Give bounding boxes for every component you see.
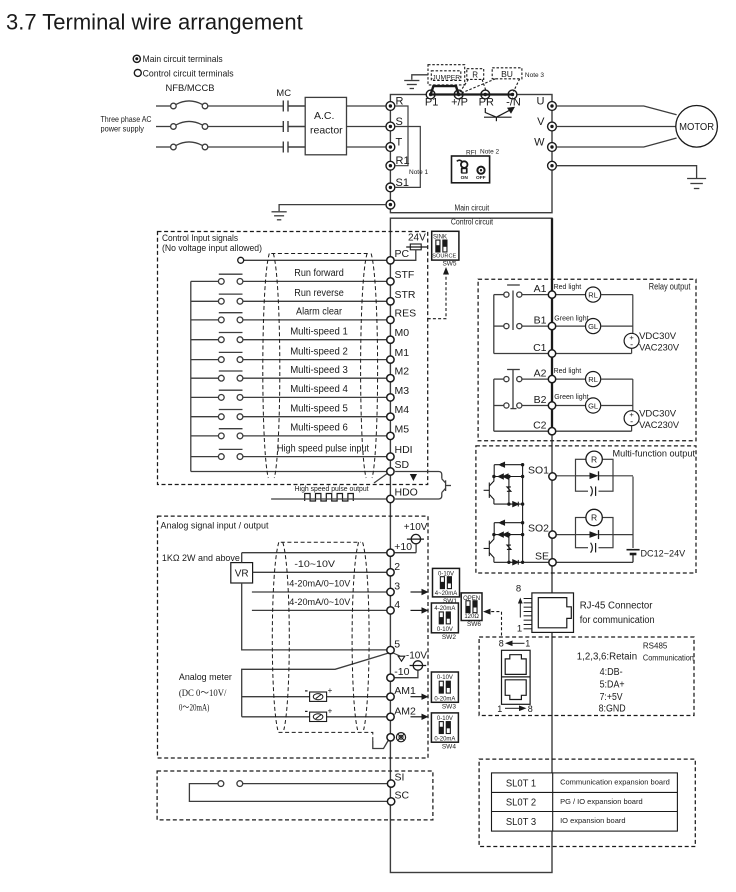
svg-text:0-10V: 0-10V [437,675,453,681]
label RES [395,307,417,319]
svg-text:Multi-speed 2: Multi-speed 2 [290,346,348,357]
terminal STR [387,298,394,305]
RFI switch box [452,148,500,182]
opto emitter bus [522,465,524,563]
potentiometer VR [231,553,253,583]
label green light 2 [554,394,588,401]
terminal AM2 [387,713,394,720]
NFB switch phase 3 [156,142,283,150]
svg-text:Multi-speed 5: Multi-speed 5 [290,404,348,415]
svg-text:M1: M1 [395,347,410,359]
svg-text:SO2: SO2 [528,523,549,535]
relay 2 lamps and supply [556,372,639,432]
terminal +10 [387,549,394,556]
input switch Multi-speed 3 [191,371,387,381]
wire motor ground [556,166,696,178]
svg-text:Note 3: Note 3 [525,72,545,79]
label S [396,116,403,128]
svg-text:Main circuit: Main circuit [455,203,490,212]
RJ-45 pin numbers [516,584,523,635]
shield bottom dashed line (analog) [279,732,373,741]
terminal SO2 [549,531,556,538]
label Run reverse [294,288,344,299]
svg-text:RFI: RFI [466,150,477,157]
svg-text:-: - [630,339,633,349]
svg-text:SL0T 2: SL0T 2 [506,798,537,809]
svg-text:SW3: SW3 [442,704,456,711]
svg-text:-: - [305,706,308,717]
svg-text:DC12~24V: DC12~24V [641,549,686,560]
jumper dashed box [428,65,465,85]
svg-text:8: 8 [499,638,504,648]
label VDC30V VAC230V 2 [639,409,680,432]
terminal HDO [387,495,394,502]
svg-text:JUMPER: JUMPER [432,74,460,81]
svg-text:Analog signal input / output: Analog signal input / output [161,521,269,532]
arrow row4 to SW2 [411,607,429,613]
svg-text:W: W [534,137,545,149]
terminal PR [481,90,490,99]
terminal -10 [387,674,394,681]
svg-text:120Ω: 120Ω [464,614,479,620]
switch SW1 [433,568,460,605]
RJ-45 pins [524,599,532,629]
HDO output transistor [395,472,451,500]
analog meter AM2 [305,706,333,722]
wire reactor to inverter phase 1 [347,105,387,107]
analog meter AM1 [305,686,333,702]
MC contact phase 1 [283,101,305,112]
svg-text:24V: 24V [408,233,426,244]
svg-text:SL0T 1: SL0T 1 [506,778,537,789]
internal wire S to S1 [395,127,421,188]
svg-text:M4: M4 [395,404,410,416]
internal wire R to R1 [395,106,408,166]
opto transistor group 2 [484,520,525,564]
label BU [501,69,513,79]
label Multi-speed 6 [290,423,348,434]
svg-text:Relay output: Relay output [649,282,691,292]
safety switch SI SC [189,781,387,802]
svg-text:RL: RL [588,290,598,299]
svg-text:+: + [328,686,333,695]
svg-text:-: - [630,417,633,427]
wire U to motor [556,106,676,115]
terminal 2 [387,569,394,576]
label 5 [394,639,400,651]
legend main circuit text [143,54,223,65]
label Alarm clear [296,307,343,318]
RS485 pin description [577,652,637,715]
svg-text:Multi-speed 3: Multi-speed 3 [290,365,348,376]
label Note 1 [409,169,429,176]
svg-text:SOURCE: SOURCE [432,254,456,260]
input switch Alarm clear [191,313,387,323]
label STF [395,269,415,281]
svg-text:Red light: Red light [554,368,582,375]
switch SW3 [431,672,458,711]
svg-text:C2: C2 [533,420,547,432]
NFB switch phase 1 [156,101,283,109]
terminal STF [387,278,394,285]
terminal SO1 [549,473,556,480]
label green light 1 [554,316,588,323]
terminal SD [387,468,394,475]
svg-text:VAC230V: VAC230V [639,420,680,431]
svg-text:ON: ON [461,175,469,181]
svg-text:RES: RES [395,307,417,319]
svg-text:3.7 Terminal wire arrangement: 3.7 Terminal wire arrangement [6,10,303,35]
label Multi-function output [613,448,696,459]
label SI [395,772,405,784]
ground screw symbol [396,733,405,742]
label HDI [395,444,413,456]
input switch Multi-speed 1 [191,333,387,343]
MC contact phase 3 [283,142,305,153]
svg-text:for communication: for communication [580,615,655,626]
svg-text:R: R [591,513,597,523]
control circuit box [390,218,552,872]
svg-text:5: 5 [394,639,400,651]
label R option [472,70,478,79]
label C1 [533,342,547,354]
label Multi-speed 2 [290,346,348,357]
RS485 pin order bottom [497,704,533,714]
label A1 [534,283,547,295]
label SD [395,459,410,471]
wire reactor to inverter phase 2 [347,126,387,128]
RS485 dual jacks [502,650,531,704]
relay 2 contacts [494,370,632,432]
terminal RES [387,316,394,323]
svg-text:Control circuit terminals: Control circuit terminals [143,68,234,79]
svg-text:Analog meter: Analog meter [179,672,232,683]
terminal R [386,102,395,111]
terminal AM1 [387,693,394,700]
wire row 4 [252,609,387,611]
label 1K ohm 2W [162,553,240,564]
svg-text:RL: RL [588,375,598,384]
option resistor R dashed box [460,69,487,93]
opto transistor group 1 [484,462,525,506]
relay R snubber loop 1 [556,451,633,496]
SW5 dashed pointer [428,273,446,319]
svg-text:Green light: Green light [554,316,588,323]
brake unit BU dashed box [462,68,522,93]
label B1 [534,315,547,327]
svg-text:SC: SC [395,790,410,802]
label red light 2 [554,368,582,375]
svg-text:RJ-45 Connector: RJ-45 Connector [580,601,653,612]
label High speed pulse input [277,443,369,454]
terminal S [386,122,395,131]
24V fuse [406,233,427,250]
slot table text [506,778,670,828]
wire row 5 [242,583,387,650]
label AM1 [394,685,416,697]
svg-text:SO1: SO1 [528,465,549,477]
svg-text:Red light: Red light [554,284,582,291]
label M3 [395,385,410,397]
terminal M2 [387,375,394,382]
label -10~10V [294,559,335,570]
svg-text:+: + [328,706,333,715]
svg-text:PR: PR [479,97,494,109]
PC external node [238,257,244,263]
relay R snubber loop 2 [556,509,633,552]
terminal M4 [387,413,394,420]
label V [537,116,545,128]
inverter main circuit box [390,95,552,213]
svg-text:A.C.: A.C. [314,110,334,122]
terminal C2 [548,428,555,435]
label P1 [425,97,438,109]
svg-text:-/N: -/N [506,97,521,109]
label -/N [506,97,521,109]
legend control circuit text [143,68,234,79]
label Control input signals [162,233,262,254]
label RJ-45 Connector [580,601,655,627]
svg-text:(DC 0～10V/: (DC 0～10V/ [179,688,227,699]
label RS485 Communication [643,642,694,663]
svg-text:C1: C1 [533,342,547,354]
arrow row3 to SW1 [411,589,429,595]
label 4 [394,599,400,611]
inverter ground symbol [272,212,287,220]
label PR [479,97,494,109]
label B2 [534,394,547,406]
svg-text:SE: SE [535,550,549,562]
svg-text:OFF: OFF [476,175,486,181]
brake resistor symbol under PR [484,107,515,121]
shield drain wire [373,741,388,749]
svg-text:VDC30V: VDC30V [639,331,677,342]
label Analog meter [179,672,232,683]
svg-text:5:DA+: 5:DA+ [600,680,625,691]
pulse waveform [305,494,354,502]
svg-text:4: 4 [394,599,400,611]
label M5 [395,423,410,435]
svg-text:4-20mA/0~10V: 4-20mA/0~10V [289,597,351,608]
relay 1 contacts [494,285,632,354]
wire row 3 [252,591,387,593]
svg-text:M0: M0 [395,327,410,339]
label T [396,137,403,149]
svg-text:8: 8 [528,704,533,714]
svg-text:IO expansion board: IO expansion board [560,816,625,825]
svg-text:Run forward: Run forward [294,268,344,279]
svg-text:High speed pulse input: High speed pulse input [277,443,369,454]
label Main circuit [455,203,490,212]
svg-text:SW5: SW5 [442,260,456,267]
svg-text:HDI: HDI [395,444,413,456]
SD wire [191,471,387,473]
label MC [276,88,291,99]
motor ground symbol [687,179,706,189]
arrow AM2 to SW4 [411,714,429,720]
label Multi-speed 3 [290,365,348,376]
terminal M3 [387,394,394,401]
terminal SE [549,559,556,566]
svg-text:V: V [537,116,545,128]
shield cone right (analog) [352,542,369,730]
terminal A1 [548,291,555,298]
input switch Multi-speed 6 [191,429,387,439]
input switch Run forward [191,274,387,284]
svg-text:7:+5V: 7:+5V [600,692,623,703]
label PC [395,248,410,260]
shield cone left (control) [263,254,280,479]
svg-text:(No voltage input allowed): (No voltage input allowed) [162,243,262,254]
label M1 [395,347,410,359]
terminal B1 [548,322,555,329]
svg-text:HDO: HDO [395,487,418,499]
switch SW2 [431,603,458,641]
svg-text:1: 1 [525,638,530,648]
label Control circuit [451,217,494,227]
svg-text:1: 1 [497,704,502,714]
terminal W [548,143,557,152]
svg-text:VAC230V: VAC230V [639,343,680,354]
terminal C1 [548,350,555,357]
terminal 3 [387,588,394,595]
shield cone right (control) [361,254,378,479]
terminal U [548,102,557,111]
relay terminal bus thick line [551,218,553,431]
terminal A2 [548,375,555,382]
svg-text:0-20mA: 0-20mA [434,697,455,703]
terminal P1 [426,90,435,99]
label SC [395,790,410,802]
HDO wire [271,498,387,500]
label VDC30V VAC230V 1 [639,331,680,354]
svg-text:1: 1 [517,624,522,635]
label AM2 [394,705,416,717]
switch SW4 [431,713,458,751]
svg-text:-10~10V: -10~10V [294,559,335,570]
label Note 3 [525,72,545,79]
svg-text:4~20mA: 4~20mA [435,591,458,597]
svg-text:MC: MC [276,88,291,99]
label SE [535,550,549,562]
label 4-20mA row3 [289,578,351,589]
input switch left bus [190,281,192,471]
top ground wire [412,75,428,80]
control input signals dashed box [158,232,428,485]
svg-text:4:DB-: 4:DB- [600,667,623,678]
label 2 [394,561,400,573]
terminal SI [387,780,394,787]
legend control circuit terminal symbol [134,69,141,76]
label M0 [395,327,410,339]
svg-text:SI: SI [395,772,405,784]
sink current arrow [410,474,417,481]
svg-text:T: T [396,137,403,149]
svg-text:+/P: +/P [451,97,468,109]
svg-text:SW6: SW6 [467,621,481,628]
svg-text:P1: P1 [425,97,438,109]
svg-text:High speed pulse output: High speed pulse output [295,486,369,493]
svg-text:1KΩ 2W and above: 1KΩ 2W and above [162,553,240,564]
terminal M0 [387,336,394,343]
terminal -/N [508,90,517,99]
input switch Multi-speed 4 [191,390,387,400]
-10V source symbol [392,650,427,677]
wire reactor to inverter phase 3 [347,146,387,148]
svg-text:4-20mA: 4-20mA [434,606,455,612]
svg-text:M3: M3 [395,385,410,397]
label R1 [396,155,410,167]
terminal 5 [387,646,394,653]
svg-text:R: R [591,454,597,464]
svg-text:U: U [537,96,545,108]
label Relay output [649,282,691,292]
input switch Run reverse [191,294,387,304]
shield top dashed line (analog) [281,541,361,543]
wire inverter ground [279,205,386,212]
svg-text:AM2: AM2 [394,705,416,717]
svg-text:STR: STR [395,289,416,301]
safety input dashed box [157,771,433,820]
NFB switch phase 2 [156,121,283,129]
svg-text:BU: BU [501,69,513,79]
MC contact phase 2 [283,121,305,132]
terminal +/P [454,90,463,99]
svg-text:M5: M5 [395,423,410,435]
top edge bus P1 to -/N [431,93,513,95]
svg-text:B2: B2 [534,394,547,406]
label 3 [394,581,400,593]
terminal PC [387,257,394,264]
svg-text:0-10V: 0-10V [437,627,453,633]
svg-text:RS485: RS485 [643,642,668,651]
svg-text:+10V: +10V [404,522,428,533]
svg-text:Green light: Green light [554,394,588,401]
svg-text:reactor: reactor [310,125,343,137]
A.C. reactor [305,97,346,154]
svg-text:PC: PC [395,248,410,260]
label S1 [396,177,409,189]
terminal R1 [386,161,395,170]
label W [534,137,545,149]
wire meter bracket [242,652,391,717]
label three phase AC power supply [101,114,152,134]
SINK SOURCE switch SW5 [432,231,459,267]
shield drain to SD [374,473,388,483]
label Multi-speed 5 [290,404,348,415]
label JUMPER [432,74,460,81]
svg-text:VDC30V: VDC30V [639,409,677,420]
label Analog signal input / output [161,521,269,532]
svg-text:A1: A1 [534,283,547,295]
terminal B2 [548,402,555,409]
label M4 [395,404,410,416]
svg-text:+10: +10 [394,541,412,553]
wire +10 row [242,552,416,554]
SW6 dashed link [483,609,502,637]
switch SW6 [461,593,482,628]
svg-text:0～20mA): 0～20mA) [179,703,210,714]
svg-text:Run reverse: Run reverse [294,288,344,299]
wire PC to 24V [244,250,416,260]
relay output dashed box [478,279,696,441]
svg-text:NFB/MCCB: NFB/MCCB [166,83,215,94]
title [6,10,303,35]
ground node circle [387,734,394,741]
svg-text:AM1: AM1 [394,685,416,697]
label HDO [395,487,418,499]
label R [396,96,404,108]
